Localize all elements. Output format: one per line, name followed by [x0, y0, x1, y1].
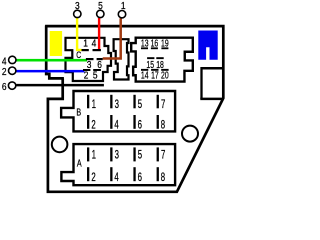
legend circle 2 [9, 67, 16, 74]
middle slot piece [114, 39, 129, 79]
svg-text:7: 7 [161, 99, 165, 112]
B pin 8 blade [157, 115, 159, 129]
wire blue (pin 2 of C) [16, 70, 84, 73]
svg-text:20: 20 [161, 69, 169, 81]
B pin 7 blade [157, 95, 159, 109]
svg-text:4: 4 [114, 119, 119, 132]
pin 18 contact [156, 57, 163, 59]
svg-text:6: 6 [138, 119, 143, 132]
pin 15 contact [147, 57, 154, 59]
right compartment left edge [200, 67, 202, 99]
svg-text:2: 2 [91, 172, 95, 185]
legend circle 6 [8, 82, 15, 89]
C pin 6 contact [97, 58, 103, 60]
svg-text:3: 3 [115, 149, 120, 162]
legend circle 1 [118, 11, 125, 18]
wire brown (pin 6 of C) [103, 18, 121, 58]
B pin 3 blade [110, 95, 112, 109]
svg-text:5: 5 [93, 70, 98, 81]
A pin 6 blade [133, 167, 135, 181]
A pin 2 blade [87, 167, 89, 181]
pin 19 contact [161, 47, 168, 49]
connector B housing [61, 91, 175, 131]
inner circle right [182, 126, 198, 142]
pin 20 contact [161, 69, 168, 71]
A pin 7 blade [157, 147, 159, 161]
svg-text:17: 17 [151, 69, 159, 81]
svg-text:7: 7 [161, 149, 165, 162]
pin 17 contact [151, 69, 158, 71]
svg-text:16: 16 [151, 37, 159, 49]
right compartment bottom line [200, 98, 222, 101]
svg-text:3: 3 [87, 59, 92, 70]
A pin 4 blade [110, 167, 112, 181]
svg-text:1: 1 [83, 38, 88, 49]
svg-text:5: 5 [138, 149, 143, 162]
pin 14 contact [141, 69, 148, 71]
svg-text:2: 2 [2, 67, 7, 78]
pin 13 contact [141, 47, 148, 49]
connector A housing [61, 144, 175, 185]
svg-text:C: C [76, 50, 81, 60]
B pin 1 blade [87, 95, 89, 109]
chassis shelf line / ground strip [16, 84, 104, 87]
svg-text:14: 14 [141, 69, 149, 81]
C pin 4 contact [93, 49, 101, 51]
A pin 5 blade [133, 147, 135, 161]
svg-text:5: 5 [138, 99, 143, 112]
C pin 5 contact [93, 69, 101, 71]
connector C housing [66, 38, 112, 81]
radio case outline [45, 26, 223, 192]
svg-text:3: 3 [115, 99, 120, 112]
svg-text:6: 6 [138, 172, 143, 185]
right compartment top line [201, 67, 223, 70]
wire yellow (pin 1 of C) [77, 18, 81, 50]
svg-text:1: 1 [92, 99, 96, 112]
A pin 8 blade [157, 167, 159, 181]
svg-text:4: 4 [2, 56, 7, 67]
svg-text:19: 19 [161, 37, 169, 49]
legend circle 4 [9, 56, 16, 63]
legend circle 5 [97, 10, 104, 17]
A pin 1 blade [87, 147, 89, 161]
svg-text:5: 5 [98, 0, 103, 11]
svg-text:2: 2 [91, 119, 95, 132]
svg-text:8: 8 [161, 172, 166, 185]
svg-text:6: 6 [2, 82, 7, 93]
pin 16 contact [151, 47, 158, 49]
svg-text:A: A [77, 157, 82, 168]
svg-text:1: 1 [121, 0, 126, 11]
svg-text:8: 8 [161, 119, 166, 132]
B pin 5 blade [133, 95, 135, 109]
B pin 6 blade [133, 115, 135, 129]
svg-text:4: 4 [92, 38, 97, 49]
svg-text:B: B [76, 106, 81, 117]
wire green (pin 3 of C) [16, 59, 87, 62]
C pin 2 contact [83, 69, 90, 71]
wire red (pin 4 of C) [98, 18, 100, 51]
svg-text:4: 4 [114, 172, 119, 185]
B pin 2 blade [87, 115, 89, 129]
C pin 1 contact [82, 49, 89, 51]
yellow key rectangle [50, 31, 62, 56]
svg-text:3: 3 [75, 0, 80, 11]
main connector housing 13-20 [131, 38, 193, 82]
inner circle left [52, 137, 68, 153]
C pin 3 contact [86, 58, 94, 60]
A pin 3 blade [110, 147, 112, 161]
blue connector block top-right [198, 31, 217, 60]
svg-text:6: 6 [97, 59, 102, 70]
svg-text:2: 2 [84, 70, 89, 81]
B pin 4 blade [110, 115, 112, 129]
legend circle 3 [74, 10, 81, 17]
svg-text:13: 13 [141, 37, 149, 49]
svg-text:1: 1 [92, 149, 96, 162]
